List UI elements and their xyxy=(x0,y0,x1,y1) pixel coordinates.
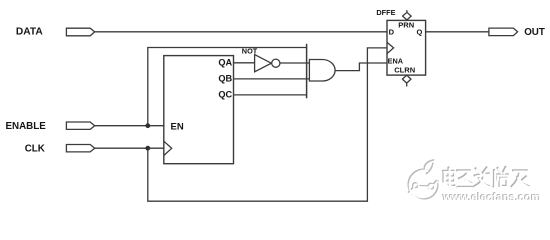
wire DATA to D xyxy=(95,31,387,33)
input pin CLK xyxy=(66,145,94,152)
svg-text:EN: EN xyxy=(171,121,184,132)
svg-text:QC: QC xyxy=(218,90,232,100)
CLRN diamond xyxy=(402,75,411,86)
counter block U1 xyxy=(164,56,234,164)
wire QB to AND xyxy=(234,78,310,80)
svg-text:Q: Q xyxy=(417,27,423,36)
wire CLK to counter clock xyxy=(95,147,164,149)
svg-text:PRN: PRN xyxy=(398,20,414,29)
junction dot ENABLE xyxy=(145,123,150,128)
svg-text:QB: QB xyxy=(218,74,232,84)
wire Q to OUT xyxy=(426,31,489,33)
NOT gate bubble xyxy=(272,59,280,67)
wire QC to bus xyxy=(234,94,307,96)
NOT gate triangle xyxy=(255,55,272,72)
wire ENABLE to EN xyxy=(95,125,164,127)
svg-text:ENA: ENA xyxy=(388,57,404,66)
input pin DATA xyxy=(66,28,94,36)
svg-text:DFFE: DFFE xyxy=(376,8,395,17)
wire top edge xyxy=(147,47,306,49)
svg-text:DATA: DATA xyxy=(16,27,43,38)
input pin ENABLE xyxy=(66,122,94,129)
svg-text:QA: QA xyxy=(218,57,232,67)
svg-text:CLRN: CLRN xyxy=(394,65,415,74)
watermark text 电子发烧友 (approximated brush strokes) xyxy=(443,167,530,188)
wire CLK feedback down-right-up xyxy=(148,48,387,201)
AND gate xyxy=(309,60,335,82)
counter clock triangle xyxy=(164,141,172,155)
svg-text:D: D xyxy=(389,28,395,37)
wire vertical bus at AND xyxy=(306,44,308,99)
wire ENABLE up xyxy=(147,48,149,126)
wire QA to NOT xyxy=(234,62,255,64)
svg-text:ENABLE: ENABLE xyxy=(6,121,47,132)
junction dot CLK xyxy=(145,146,150,151)
svg-text:www.elecfans.com: www.elecfans.com xyxy=(442,192,541,204)
svg-text:CLK: CLK xyxy=(25,143,45,154)
svg-text:NOT: NOT xyxy=(242,47,258,56)
svg-text:OUT: OUT xyxy=(524,27,545,38)
output pin OUT xyxy=(489,28,518,35)
wire AND out to ENA xyxy=(335,63,387,71)
wire NOT out to AND xyxy=(280,62,310,64)
DFFE clock triangle xyxy=(387,42,394,53)
watermark elecfans logo xyxy=(408,160,439,200)
PRN diamond xyxy=(403,10,412,20)
D flip-flop U2 DFFE xyxy=(387,20,426,75)
